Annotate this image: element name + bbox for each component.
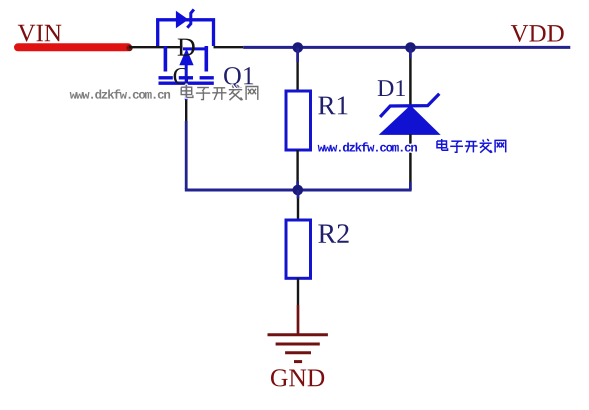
- label VIN: [18, 25, 62, 42]
- label VDD: [511, 25, 564, 42]
- zener diode D1 cathode bar: [380, 94, 439, 117]
- wire gate to bottom node (navy): [185, 121, 188, 189]
- watermark 1 gray chinese 电子开发网: [181, 85, 258, 100]
- wire rail to R1 (black): [296, 62, 298, 90]
- watermark 1 gray www.dzkfw.com.cn: [70, 89, 170, 98]
- node top rail R1 junction dot: [293, 42, 304, 53]
- body diode D of Q1 : loop wiring: [158, 20, 214, 46]
- watermark 2 blue chinese 电子开发网: [437, 139, 506, 153]
- resistor R2: [286, 220, 311, 278]
- substrate arrow stem of Q1: [185, 64, 188, 83]
- wire rail to R1 (navy stub): [296, 48, 299, 63]
- label G (gate pin of Q1): [174, 68, 190, 84]
- wire R2 to ground (maroon): [297, 305, 300, 336]
- wire VIN (red net): [18, 43, 128, 51]
- zener diode D1 triangle: [379, 105, 441, 135]
- wire VIN to Q1 (black): [129, 46, 183, 48]
- body diode D triangle: [176, 11, 189, 28]
- wire bottom node to R2 (navy stub): [297, 190, 300, 199]
- label D1: [378, 80, 405, 96]
- label Q1: [224, 67, 253, 88]
- transistor Q1 (P-MOSFET body): [159, 46, 214, 83]
- wire gate to bottom node (black): [185, 100, 187, 121]
- watermark 1 gray chinese 电子开发网 (halo): [181, 85, 258, 100]
- wire bottom node to R2 (black): [297, 199, 299, 220]
- wire rail to D1 (black): [409, 58, 412, 106]
- wire Q1 to VDD net (black segment): [214, 46, 244, 48]
- wire D1 to bottom rail (navy stub): [409, 182, 412, 190]
- node top rail D1 junction dot: [405, 42, 416, 53]
- label D (drain pin of Q1): [178, 39, 195, 56]
- wire R2 to ground (black): [297, 278, 299, 305]
- wire D1 to bottom rail (black): [409, 134, 412, 182]
- label R2: [318, 224, 348, 243]
- wire R1 to bottom node (black): [296, 150, 298, 181]
- label GND: [271, 369, 324, 386]
- label R1: [318, 97, 347, 115]
- watermark 2 blue chinese 电子开发网 (halo): [437, 139, 506, 153]
- wire rail to D1 (navy stub): [409, 48, 412, 59]
- resistor R1: [286, 91, 311, 150]
- wire VDD rail (navy): [243, 46, 570, 49]
- wire R1 to bottom node (navy stub): [296, 181, 299, 190]
- node bottom rail junction dot: [293, 185, 304, 196]
- body diode D zener bar: [187, 9, 194, 27]
- wire bottom rail (navy): [185, 189, 412, 192]
- node VIN junction dot: [126, 45, 132, 51]
- watermark 2 blue www.dzkfw.com.cn: [318, 142, 417, 151]
- wire Q1 gate lead (blue): [185, 85, 188, 101]
- substrate arrow of Q1: [179, 49, 193, 66]
- ground: [268, 335, 328, 362]
